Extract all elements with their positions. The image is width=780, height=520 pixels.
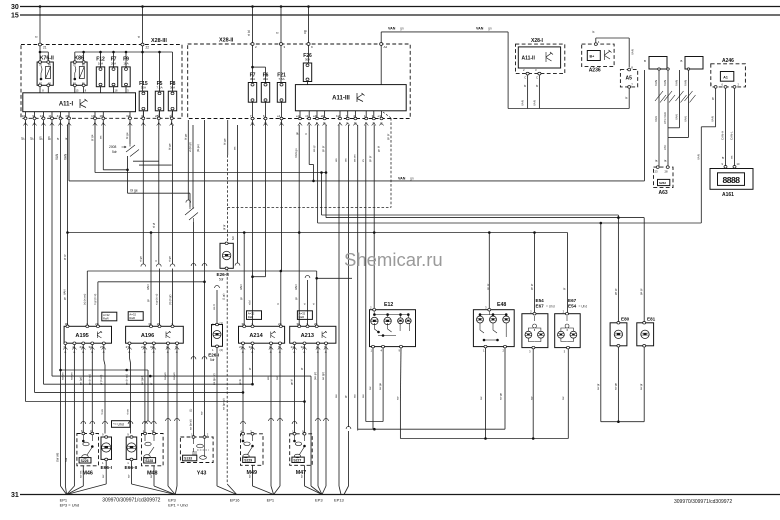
svg-text:gn gr: gn gr [486,284,490,290]
svg-text:rt: rt [35,36,39,38]
svg-text:gr: gr [248,367,252,370]
svg-text:RaR: RaR [248,315,254,319]
svg-text:VAN: VAN [684,116,688,122]
svg-text:A2: A2 [384,45,388,49]
svg-text:= Uhd: = Uhd [579,304,588,308]
svg-text:A213: A213 [301,333,314,339]
svg-text:a9: a9 [321,114,325,118]
svg-text:ws: ws [233,146,237,150]
svg-text:sw ge: sw ge [614,382,617,390]
svg-text:bl ge: bl ge [131,189,138,193]
svg-text:gr: gr [591,30,595,33]
svg-text:gn gr: gn gr [530,284,534,290]
svg-text:ge gr: ge gr [639,288,643,295]
svg-text:S227: S227 [293,458,301,462]
svg-text:gn: gn [239,296,243,300]
svg-text:E67: E67 [536,303,545,308]
svg-text:gr: gr [344,395,348,398]
svg-text:VAN: VAN [711,116,715,122]
svg-text:309970/309971/cd309972: 309970/309971/cd309972 [674,499,732,505]
svg-text:rt gn: rt gn [168,256,172,262]
svg-text:Shemicar.ru: Shemicar.ru [344,249,443,270]
svg-text:S229: S229 [244,458,252,462]
svg-text:A246: A246 [722,58,734,64]
svg-text:EP16: EP16 [230,497,241,502]
svg-text:S133: S133 [184,457,192,461]
svg-text:EP1: EP1 [267,497,275,502]
svg-text:A: A [317,350,319,354]
svg-text:ws gr: ws gr [312,145,316,152]
svg-text:sw ws: sw ws [79,470,82,478]
svg-text:gr gr: gr gr [222,224,226,230]
svg-text:VAN gn: VAN gn [294,148,298,158]
svg-text:gn: gn [63,296,67,300]
svg-text:309970/309971/cd309972: 309970/309971/cd309972 [102,497,160,503]
svg-text:E80: E80 [621,317,630,322]
svg-text:M46: M46 [82,470,93,476]
svg-text:gr: gr [624,96,628,99]
svg-text:gr: gr [300,367,304,370]
svg-text:RaR: RaR [103,317,109,321]
svg-text:UTC VAN: UTC VAN [663,112,667,124]
svg-text:A196: A196 [141,333,154,339]
svg-text:A: A [103,350,105,354]
svg-text:C: C [524,76,526,80]
svg-text:gr: gr [56,138,60,140]
svg-text:bl ge: bl ge [183,133,187,140]
svg-text:(rt) (rt ws): (rt) (rt ws) [82,294,86,305]
svg-text:30A: 30A [170,86,175,90]
svg-text:A: A [82,350,84,354]
svg-text:ws: ws [344,158,348,162]
svg-text:CAN-L: CAN-L [730,131,734,140]
svg-text:38: 38 [65,322,69,326]
svg-text:rt: rt [137,36,141,38]
svg-text:RaR: RaR [129,316,135,320]
svg-text:32: 32 [88,345,92,349]
svg-text:ws ws: ws ws [353,154,357,162]
svg-text:7.5A: 7.5A [278,77,284,81]
svg-text:27: 27 [126,345,130,349]
svg-text:10: 10 [22,114,26,118]
svg-text:32: 32 [126,114,130,118]
svg-text:VAN: VAN [388,27,396,31]
svg-text:ATC: ATC [663,145,667,150]
svg-text:E48: E48 [497,302,506,308]
svg-text:VAN: VAN [64,153,68,160]
svg-text:rt: rt [304,133,308,135]
svg-text:EP3: EP3 [168,497,176,502]
svg-text:RaR: RaR [299,315,305,319]
svg-text:A: A [325,350,327,354]
svg-text:24: 24 [141,345,145,349]
svg-text:EP1: EP1 [60,497,68,502]
svg-text:VAN: VAN [294,284,298,290]
svg-text:VAN: VAN [684,80,688,86]
svg-text:18: 18 [99,114,103,118]
svg-text:bl ge: bl ge [125,132,129,139]
svg-text:31: 31 [11,492,19,499]
svg-text:7.5A: 7.5A [156,86,162,90]
svg-text:38: 38 [241,322,245,326]
svg-text:27: 27 [100,345,104,349]
svg-text:bl ge: bl ge [168,143,172,150]
svg-text:X28-I: X28-I [531,38,544,44]
svg-text:n1: n1 [305,114,309,118]
svg-text:19: 19 [91,114,95,118]
svg-text:38: 38 [296,322,300,326]
svg-text:ws: ws [98,135,102,139]
svg-text:ws: ws [334,158,338,162]
svg-text:rt ws: rt ws [126,408,130,415]
svg-text:28: 28 [155,114,159,118]
svg-text:A: A [64,350,66,354]
svg-text:e9: e9 [313,114,317,118]
svg-text:A: A [242,350,244,354]
svg-text:Y43: Y43 [197,471,207,477]
svg-text:rt: rt [312,303,316,305]
svg-text:ws rt: ws rt [212,304,216,310]
svg-text:gn bl: gn bl [290,379,294,385]
svg-text:S226: S226 [81,459,89,463]
svg-text:A: A [73,350,75,354]
svg-text:gn: gn [294,296,298,300]
svg-text:A: A [279,350,281,354]
svg-text:gn bl: gn bl [377,146,381,152]
svg-text:A: A [167,350,169,354]
svg-text:rt: rt [303,303,307,305]
svg-text:20: 20 [314,322,318,326]
svg-text:8888: 8888 [722,175,740,185]
svg-text:23: 23 [655,170,659,174]
svg-text:30A: 30A [141,86,146,90]
svg-text:S228: S228 [145,459,153,463]
svg-text:K76-II: K76-II [40,56,55,62]
svg-text:e4: e4 [296,114,300,118]
svg-text:rt bl: rt bl [248,300,252,305]
svg-text:24: 24 [239,345,243,349]
svg-text:VAN: VAN [521,100,525,106]
svg-text:gr: gr [149,382,153,385]
svg-text:E81: E81 [647,317,656,322]
svg-text:e3: e3 [378,114,382,118]
svg-text:EP3: EP3 [315,497,323,502]
svg-text:(1): (1) [189,409,193,412]
svg-text:E66-II: E66-II [125,465,138,471]
svg-text:gr: gr [562,287,566,290]
svg-text:VAN: VAN [654,80,658,86]
svg-text:*= Uhd: *= Uhd [113,423,124,427]
svg-text:EP13: EP13 [334,497,345,502]
svg-text:29: 29 [157,322,161,326]
svg-text:11: 11 [48,114,51,118]
svg-text:vi (bl gr): vi (bl gr) [188,142,192,152]
svg-text:S262: S262 [659,181,666,185]
svg-text:10A: 10A [123,61,128,65]
svg-text:20: 20 [278,322,282,326]
svg-text:(1): (1) [220,321,223,325]
svg-text:10A: 10A [98,61,103,65]
svg-text:VAN: VAN [631,49,635,55]
svg-text:B: B [644,59,646,63]
svg-text:B: B [316,122,318,126]
svg-text:A: A [293,350,295,354]
svg-text:A11-III: A11-III [332,96,350,102]
svg-text:22: 22 [146,46,150,50]
svg-text:E26-II: E26-II [217,272,229,277]
svg-text:gn (rt ws): gn (rt ws) [87,374,91,385]
svg-text:rt: rt [276,303,280,305]
svg-text:gn: gn [488,27,492,31]
svg-text:CAN-H: CAN-H [721,131,725,140]
svg-text:bl ge: bl ge [223,138,227,145]
svg-text:zv: zv [361,159,365,163]
svg-text:E12: E12 [384,302,393,308]
svg-text:A: A [128,350,130,354]
svg-text:sw: sw [249,475,252,478]
svg-text:gr: gr [721,157,725,159]
svg-text:gr: gr [663,160,667,162]
svg-text:rt gn: rt gn [138,256,142,262]
svg-text:gr ge: gr ge [90,134,94,141]
svg-text:32: 32 [301,345,305,349]
svg-text:VAN: VAN [476,27,484,31]
svg-text:gr gr: gr gr [63,254,67,260]
svg-text:sw gr: sw gr [639,383,643,390]
svg-text:sw: sw [102,475,105,478]
svg-text:30A: 30A [305,57,310,61]
svg-text:24: 24 [291,345,295,349]
svg-text:sw (gr): sw (gr) [321,372,325,380]
svg-text:sw ws: sw ws [172,372,176,380]
svg-text:40: 40 [65,114,69,118]
svg-text:15: 15 [11,13,19,20]
svg-text:B: B [308,122,310,126]
svg-text:B: B [323,122,325,126]
svg-text:A: A [91,350,93,354]
svg-text:sw ge: sw ge [500,392,503,400]
svg-text:gn gr: gn gr [368,156,372,162]
svg-text:gn: gn [400,27,404,31]
svg-text:gn: gn [146,298,150,302]
svg-text:gr: gr [64,138,68,140]
svg-text:ws: ws [266,376,270,380]
svg-text:sw ws: sw ws [56,452,60,462]
svg-text:sw (br bl): sw (br bl) [189,419,193,430]
svg-text:(1 gr): (1 gr) [222,293,226,300]
svg-text:sw ge: sw ge [379,382,382,390]
svg-text:C: C [536,76,538,80]
svg-text:og: og [303,30,307,34]
svg-text:rt gr (rt vi): rt gr (rt vi) [93,294,97,305]
svg-text:gr: gr [523,84,527,87]
svg-text:gn gr: gn gr [321,146,325,152]
svg-text:VAN: VAN [654,116,658,122]
svg-text:A11-II: A11-II [522,56,536,62]
svg-text:sw: sw [64,457,68,462]
svg-text:6dr: 6dr [231,236,235,240]
svg-text:38: 38 [148,322,152,326]
svg-text:sw ws: sw ws [60,372,64,380]
svg-text:= Uhd: = Uhd [546,304,555,308]
svg-text:A1: A1 [723,75,728,79]
svg-text:VAN: VAN [675,80,679,86]
svg-text:A: A [303,350,305,354]
svg-text:B+: B+ [590,55,595,59]
svg-text:gr: gr [534,84,538,87]
svg-text:A63: A63 [659,190,668,196]
svg-text:gn (gr): gn (gr) [78,377,82,385]
svg-text:sw: sw [301,475,304,478]
svg-text:32: 32 [249,345,253,349]
svg-text:B: B [280,122,282,126]
svg-text:gn: gn [47,136,51,140]
svg-text:E54: E54 [536,298,545,303]
svg-text:gn (rt ws): gn (rt ws) [125,374,129,385]
svg-text:E67: E67 [568,298,577,303]
svg-text:(rt) (rt gr): (rt) (rt gr) [168,294,172,305]
svg-text:VAN: VAN [239,284,243,290]
svg-text:sw ws: sw ws [150,470,153,478]
svg-text:VAN: VAN [398,176,406,180]
svg-text:VAN: VAN [696,154,700,160]
svg-text:A: A [251,350,253,354]
svg-text:gn: gn [296,132,299,135]
svg-text:rt gr (rt vi): rt gr (rt vi) [155,294,159,305]
svg-text:VAN: VAN [663,80,667,86]
svg-text:E54: E54 [568,303,577,308]
svg-text:(bl ge): (bl ge) [196,144,200,152]
svg-text:rt: rt [154,260,158,262]
svg-text:12: 12 [40,114,44,118]
svg-text:A5: A5 [626,76,633,82]
svg-text:gn bi: gn bi [238,379,242,385]
svg-text:VAN: VAN [55,153,59,160]
svg-text:B: B [681,59,683,63]
svg-text:sw ws: sw ws [163,372,167,380]
svg-text:sw gr: sw gr [596,383,600,390]
svg-text:EP3 = Uhd: EP3 = Uhd [60,503,79,508]
svg-text:A: A [270,350,272,354]
svg-text:A: A [144,350,146,354]
svg-text:30A: 30A [263,77,268,81]
svg-text:2008: 2008 [109,145,117,149]
svg-text:F: F [347,122,349,126]
svg-text:28: 28 [665,170,669,174]
svg-text:sw (ge): sw (ge) [140,376,144,385]
svg-text:K86: K86 [74,56,84,62]
svg-text:VAN: VAN [675,114,679,120]
svg-text:21: 21 [43,46,47,50]
svg-text:20A: 20A [111,61,116,65]
svg-text:E26-I: E26-I [208,352,219,357]
svg-text:b2: b2 [336,114,340,118]
svg-text:A11-I: A11-I [59,101,74,107]
svg-text:41: 41 [57,114,61,118]
svg-text:sw (ge gr): sw (ge gr) [222,398,226,410]
svg-text:24: 24 [79,345,83,349]
svg-text:rt ws: rt ws [100,408,104,415]
svg-text:rt vi: rt vi [152,223,156,228]
svg-text:32: 32 [150,345,154,349]
svg-text:X28-II: X28-II [219,38,234,44]
svg-text:X28-III: X28-III [151,38,167,44]
svg-text:sw: sw [128,475,131,478]
svg-text:E66-I: E66-I [101,465,113,471]
svg-text:VAN: VAN [63,289,67,295]
svg-text:20: 20 [95,322,99,326]
svg-text:(4): (4) [220,348,223,352]
svg-text:gn gr: gn gr [386,134,390,140]
svg-text:ws (ge gr): ws (ge gr) [212,373,216,385]
svg-text:A161: A161 [722,192,734,198]
svg-text:30: 30 [11,4,19,11]
svg-text:VAN: VAN [533,100,537,106]
svg-text:A: A [176,350,178,354]
svg-text:A: A [153,350,155,354]
svg-text:gr (rt ws): gr (rt ws) [99,375,103,385]
svg-text:sw ws: sw ws [69,372,73,380]
svg-text:gn: gn [39,136,43,140]
svg-text:e1: e1 [277,114,281,118]
svg-text:30A: 30A [250,77,255,81]
svg-text:A195: A195 [75,333,88,339]
svg-text:A214: A214 [249,333,263,339]
svg-text:VAN: VAN [146,284,150,290]
svg-text:gn: gn [711,96,715,100]
svg-text:gn: gn [410,176,414,180]
svg-text:EP1 = Uhd: EP1 = Uhd [168,503,187,508]
svg-text:E: E [339,122,341,126]
svg-text:gr: gr [654,160,658,162]
svg-text:rt bl: rt bl [247,30,251,36]
svg-text:(sw gr): (sw gr) [313,372,317,380]
svg-text:A236: A236 [589,67,601,73]
svg-text:ge gr: ge gr [613,288,617,295]
svg-text:rt: rt [276,32,280,34]
